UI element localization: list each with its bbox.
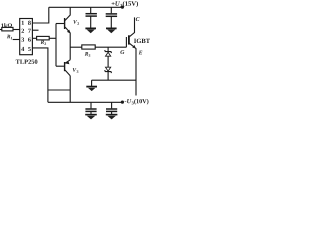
zener diode VS2 triangle bbox=[106, 67, 111, 71]
capacitor C1 bottom lead bbox=[90, 16, 92, 28]
wire input to resistor R1 bbox=[0, 29, 2, 31]
ground (C3) bbox=[85, 115, 97, 120]
transistor V3 collector bbox=[65, 70, 70, 76]
wire node R1 to pin 3 bbox=[13, 39, 20, 41]
ground (C4) bbox=[106, 115, 118, 120]
pin 3 label bbox=[21, 37, 24, 41]
wire pin 8 to top rail riser bbox=[32, 7, 48, 23]
capacitor C2 bottom lead bbox=[110, 16, 112, 28]
wire pin 6 to resistor R2 bbox=[32, 37, 36, 39]
capacitor C3 top lead bbox=[90, 102, 92, 108]
node +U2 terminal dot bbox=[121, 6, 124, 9]
ground (gate zener) bbox=[86, 87, 97, 92]
wire R2 to base bus bbox=[49, 37, 56, 39]
transistor IGBT emitter arrow bbox=[132, 45, 136, 49]
pin 6 label bbox=[28, 37, 31, 41]
label +U2(15V) bbox=[112, 1, 138, 7]
ground (C2) bbox=[106, 28, 117, 33]
wire to ground symbol bbox=[91, 80, 93, 86]
wire output node to resistor R3 bbox=[70, 46, 82, 48]
wire bus to V2 base bbox=[56, 23, 64, 25]
wire bottom rail -U3 bbox=[48, 101, 121, 103]
label E (emitter) bbox=[139, 51, 143, 55]
resistor R3 body bbox=[82, 45, 95, 49]
pin 2 label bbox=[21, 29, 24, 33]
transistor V3 base bar bbox=[64, 62, 66, 71]
wire emitter ground bus bbox=[92, 79, 136, 81]
wire VS1 to VS2 bbox=[107, 56, 109, 67]
wire top rail +U2 bbox=[49, 6, 121, 8]
zener diode VS1 cathode bar bbox=[105, 50, 112, 53]
wire pin5 branch to V3 collector line bbox=[48, 89, 70, 91]
wire pin 7 stub bbox=[32, 29, 38, 31]
capacitor C4 plates bbox=[106, 109, 117, 111]
capacitor C2 plates bbox=[106, 14, 117, 16]
transistor IGBT gate bar bbox=[125, 37, 127, 47]
zener diode VS1 lead bbox=[107, 47, 109, 51]
transistor IGBT emitter bbox=[130, 43, 136, 95]
transistor IGBT collector bbox=[130, 17, 135, 36]
zener diode VS2 cathode bar bbox=[105, 70, 112, 73]
transistor V2 emitter arrow bbox=[67, 30, 70, 34]
label R2 bbox=[41, 40, 46, 45]
pin 5 label bbox=[28, 47, 31, 51]
wire base bus vertical bbox=[55, 24, 57, 67]
pin 4 label bbox=[21, 47, 24, 51]
pin 7 label bbox=[28, 29, 31, 33]
label C (collector) bbox=[136, 17, 140, 21]
resistor R2 body bbox=[37, 36, 50, 40]
transistor V2 base bar bbox=[64, 18, 66, 29]
label TLP250 bbox=[16, 60, 38, 64]
wire R3 to gate node bbox=[95, 46, 126, 48]
transistor V2 collector bbox=[65, 7, 70, 20]
node -U3 terminal dot bbox=[121, 101, 124, 104]
zener diode VS1 triangle bbox=[106, 52, 111, 56]
label IGBT bbox=[134, 39, 150, 43]
wire V3 collector to bottom rail bbox=[69, 76, 71, 103]
capacitor C3 plates bbox=[85, 109, 96, 111]
capacitor C1 top lead bbox=[90, 7, 92, 13]
transistor IGBT channel bar bbox=[128, 35, 130, 44]
ground (C1) bbox=[85, 28, 96, 33]
wire VS2 to ground wire bbox=[107, 72, 109, 81]
capacitor C2 top lead bbox=[110, 7, 112, 13]
optocoupler U1 TLP250 body bbox=[20, 19, 33, 55]
value label 1kΩ bbox=[1, 23, 12, 27]
label G (gate) bbox=[120, 50, 124, 54]
transistor V3 emitter (arrow into bar, PNP) bbox=[65, 60, 70, 64]
capacitor C4 bottom lead bbox=[111, 111, 113, 114]
wire pin 5 down to bottom rail bbox=[32, 48, 48, 102]
label V3 bbox=[73, 68, 79, 73]
label R3 bbox=[85, 52, 91, 57]
capacitor C4 top lead bbox=[111, 102, 113, 108]
label -U3(10V) bbox=[125, 99, 149, 105]
wire bus to V3 base bbox=[56, 65, 64, 67]
wire V2 emitter to V3 emitter bbox=[69, 33, 71, 60]
wire R1 to pin 2 bbox=[13, 29, 20, 31]
label R1 bbox=[7, 35, 12, 40]
capacitor C3 bottom lead bbox=[90, 111, 92, 114]
capacitor C1 plates bbox=[86, 14, 97, 16]
pin 8 label bbox=[28, 21, 31, 25]
pin 1 label bbox=[22, 21, 24, 25]
resistor R1 1kΩ body bbox=[2, 27, 13, 31]
transistor V3 emitter arrow bbox=[65, 61, 69, 64]
transistor V2 emitter bbox=[65, 27, 70, 33]
label V2 bbox=[73, 20, 79, 25]
